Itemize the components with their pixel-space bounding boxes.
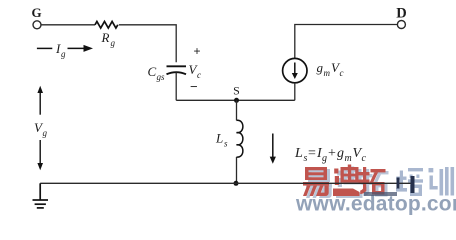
label plus sign <box>194 44 201 58</box>
svg-text:g: g <box>43 128 48 138</box>
dark tick mark on rail in watermark <box>397 176 415 193</box>
current Ig annotation dash <box>37 47 52 49</box>
node S junction dot <box>234 98 239 103</box>
junction dot at rail <box>234 181 239 186</box>
watermark CJK text 易迪拓培训 <box>295 165 456 216</box>
svg-text:gs: gs <box>157 72 166 82</box>
wire capacitor to S line <box>175 73 177 101</box>
inductor Ls coil <box>237 120 243 157</box>
shadows of red chars <box>306 167 389 199</box>
svg-text:s: s <box>304 153 308 164</box>
wire current source top to D <box>295 25 398 59</box>
svg-text:L: L <box>294 146 303 161</box>
wire S node horizontal <box>176 99 295 101</box>
svg-text:−: − <box>190 79 198 94</box>
svg-text:g: g <box>317 60 324 75</box>
svg-text:g: g <box>61 49 66 59</box>
formula Ls = Ig + gmVc <box>294 146 367 164</box>
node S label <box>233 84 240 98</box>
current source arrow <box>292 63 298 80</box>
arrow Is direction down <box>270 134 276 164</box>
label Vg <box>34 120 48 138</box>
ground rail wire <box>40 182 412 184</box>
wire inductor to ground rail <box>236 157 238 183</box>
svg-text:g: g <box>111 38 116 48</box>
wire current source bottom <box>294 83 296 101</box>
svg-text:L: L <box>215 131 223 146</box>
label Vc across capacitor <box>189 62 202 80</box>
node G terminal label <box>31 5 41 20</box>
svg-text:=: = <box>308 146 316 161</box>
wire G to resistor <box>41 24 95 26</box>
ground symbol <box>33 183 49 208</box>
svg-text:C: C <box>148 64 157 79</box>
wire resistor to gate corner <box>119 25 176 62</box>
label Cgs <box>148 64 166 82</box>
svg-text:m: m <box>324 68 331 78</box>
svg-text:s: s <box>224 139 228 149</box>
label Ls <box>215 131 228 149</box>
arrow Vg up <box>37 86 43 115</box>
svg-text:S: S <box>233 84 240 98</box>
svg-text:D: D <box>396 6 406 22</box>
wire S to inductor <box>236 100 238 120</box>
svg-text:+: + <box>328 146 336 161</box>
svg-text:c: c <box>362 153 367 164</box>
current source gmVc circle <box>283 58 307 82</box>
svg-text:g: g <box>337 146 344 161</box>
resistor Rg zigzag <box>95 22 118 29</box>
svg-text:c: c <box>197 70 201 80</box>
arrow Vg down <box>37 140 43 170</box>
svg-text:g: g <box>322 153 327 164</box>
svg-text:m: m <box>345 153 352 164</box>
svg-text:G: G <box>31 5 41 20</box>
node D terminal label <box>396 6 406 22</box>
capacitor Cgs bottom plate <box>167 72 187 74</box>
label gmVc <box>317 60 344 78</box>
svg-text:R: R <box>101 30 110 45</box>
node G terminal circle <box>33 21 41 29</box>
label Rg <box>101 30 116 48</box>
label Ig <box>55 41 66 59</box>
svg-text:+: + <box>194 44 201 58</box>
node D terminal circle <box>397 21 405 29</box>
capacitor Cgs top plate <box>167 65 187 67</box>
current Ig arrow <box>68 45 94 52</box>
svg-text:c: c <box>340 68 344 78</box>
label minus sign <box>190 79 198 94</box>
